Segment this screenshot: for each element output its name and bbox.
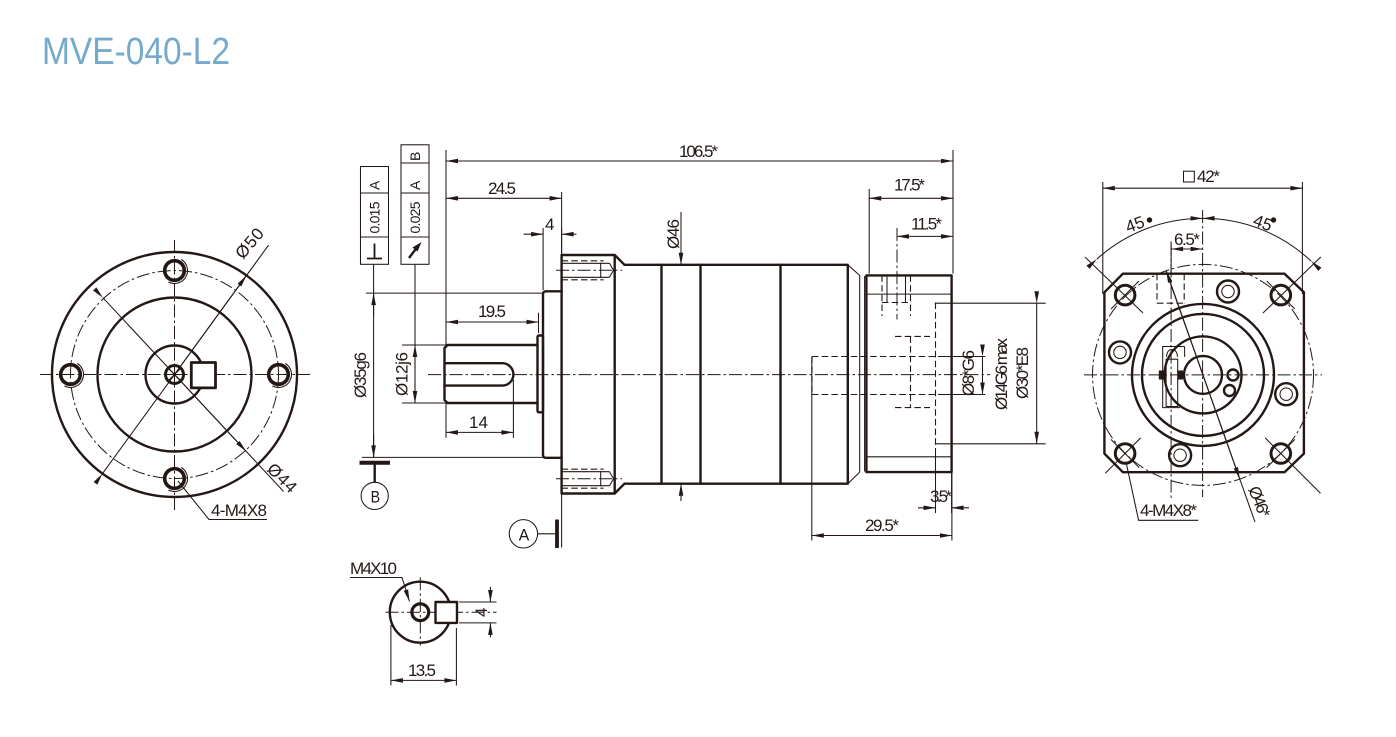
shaft outline	[445, 345, 538, 403]
dimension 3.5	[918, 448, 969, 513]
shaft step washer	[538, 336, 544, 413]
svg-text:A: A	[519, 525, 530, 544]
keyway slot	[445, 363, 514, 385]
svg-text:MVE-040-L2: MVE-040-L2	[42, 31, 230, 73]
inner face circle	[98, 298, 252, 452]
dimension 29.5	[812, 357, 952, 541]
svg-text:Ø12j6: Ø12j6	[393, 352, 412, 396]
center hole	[412, 604, 429, 621]
dimension D46 leader	[1166, 271, 1274, 522]
svg-text:13.5: 13.5	[408, 661, 436, 680]
dimension 13.5	[391, 625, 457, 686]
svg-text:B: B	[407, 152, 423, 161]
datum A flag	[509, 494, 561, 549]
square flange outline	[1104, 274, 1304, 473]
centerline horizontal	[40, 374, 310, 376]
front flange tapped hole top	[556, 261, 622, 280]
svg-text:4-M4X8*: 4-M4X8*	[1140, 501, 1197, 520]
svg-text:A: A	[407, 180, 423, 190]
plain hole bottom	[1169, 444, 1191, 466]
big circle 3	[1165, 336, 1242, 413]
svg-text:Ø46*: Ø46*	[1244, 483, 1274, 520]
outer flange circle	[52, 252, 297, 497]
plain hole right	[1275, 383, 1297, 405]
neck chamfer	[848, 265, 865, 484]
outer circle	[390, 582, 451, 643]
bolt hole right	[269, 364, 292, 388]
hidden bore lines	[812, 357, 938, 395]
dimension square 42	[1103, 167, 1303, 294]
label 4-M4X8 leader	[178, 481, 267, 520]
dimension D8*G6	[982, 357, 984, 395]
dimension D12j6	[393, 264, 447, 403]
svg-text:4: 4	[472, 608, 491, 617]
bolt hole bottom	[165, 468, 188, 492]
bolt hole left	[61, 364, 84, 388]
rear block	[866, 275, 951, 472]
svg-text:29.5*: 29.5*	[865, 516, 899, 535]
svg-text:42*: 42*	[1197, 167, 1220, 186]
dimension D30*E8	[1036, 303, 1038, 444]
dimension 24.5	[446, 179, 562, 255]
svg-text:45: 45	[1123, 212, 1147, 236]
front flange tapped hole bottom	[556, 469, 622, 488]
FCF frame 2 runout	[401, 145, 429, 264]
hidden recess D30	[935, 303, 937, 445]
hub circle	[146, 346, 204, 404]
corner hole TR	[1263, 257, 1321, 313]
centerline vertical	[1202, 210, 1204, 497]
svg-text:Ø30*E8: Ø30*E8	[1013, 347, 1032, 399]
svg-text:0.025: 0.025	[407, 201, 423, 233]
dimension D46	[664, 212, 683, 501]
dimension line D44	[103, 298, 284, 492]
svg-text:Ø14G6 max: Ø14G6 max	[992, 338, 1011, 411]
tab square	[436, 602, 458, 623]
centerlines	[386, 577, 497, 645]
clamp feature	[1159, 347, 1185, 408]
45 degree arc	[1097, 211, 1311, 261]
center rosette	[166, 366, 184, 384]
svg-text:0.015: 0.015	[367, 201, 383, 233]
svg-text:Ø44: Ø44	[263, 459, 300, 496]
FCF frame 1 perpendicularity	[361, 167, 389, 265]
dimension 14	[446, 380, 513, 438]
body ring line 3	[779, 265, 781, 484]
svg-text:Ø35g6: Ø35g6	[351, 352, 370, 398]
svg-text:3.5*: 3.5*	[930, 487, 952, 506]
svg-text:4: 4	[545, 215, 554, 234]
svg-text:B: B	[371, 487, 381, 506]
dimension 106.5	[446, 142, 953, 346]
hidden slot top	[1157, 274, 1184, 304]
plain hole top	[1217, 281, 1239, 303]
dimension 4 boss	[524, 215, 577, 290]
corner hole TL	[1085, 257, 1143, 313]
dimension 6.5	[1171, 230, 1203, 273]
big circle 2	[1142, 314, 1264, 436]
dimension 11.5	[897, 215, 953, 237]
centerline	[428, 374, 990, 376]
center bore	[1184, 356, 1222, 394]
svg-text:M4X10: M4X10	[350, 559, 397, 578]
svg-text:19.5: 19.5	[478, 302, 506, 321]
pilot boss D35	[543, 291, 562, 458]
key square	[191, 363, 215, 388]
dimension 4 tab	[459, 587, 497, 638]
keyway centerline	[1170, 243, 1172, 500]
svg-text:11.5*: 11.5*	[911, 215, 942, 234]
body ring line 2	[699, 265, 701, 484]
rear tapped hole hidden	[882, 228, 911, 320]
extension lines D30	[935, 303, 1046, 444]
svg-text:17.5*: 17.5*	[894, 176, 925, 195]
dimension D35g6	[351, 264, 543, 457]
svg-text:Ø50: Ø50	[232, 224, 268, 262]
bolt hole top	[165, 260, 188, 284]
centerline vertical	[174, 240, 176, 510]
big circle 1	[1132, 304, 1274, 446]
centerline horizontal	[1084, 374, 1322, 376]
front flange	[562, 255, 625, 494]
svg-text:A: A	[367, 180, 383, 190]
dimension 19.5	[446, 302, 539, 333]
rear block inner ring lines	[866, 294, 951, 457]
datum B flag	[360, 463, 391, 510]
svg-text:14: 14	[469, 413, 488, 432]
svg-text:4-M4X8: 4-M4X8	[211, 501, 267, 520]
bolt circle dash-dot	[71, 271, 279, 479]
svg-text:24.5: 24.5	[488, 179, 516, 198]
small hole 2	[1224, 385, 1235, 396]
extension lines D8	[938, 357, 985, 395]
hidden bore D14	[895, 336, 930, 407]
label 4-M4X8 rear	[1126, 462, 1198, 520]
svg-text:6.5*: 6.5*	[1174, 230, 1200, 249]
plain hole left	[1109, 341, 1131, 363]
svg-text:106.5*: 106.5*	[679, 142, 718, 161]
gear body	[625, 265, 848, 484]
dimension line D50	[103, 245, 269, 474]
corner hole BR	[1265, 438, 1320, 493]
svg-text:Ø8*G6: Ø8*G6	[959, 350, 978, 396]
bolt circle dash-dot	[1093, 264, 1314, 485]
svg-text:45: 45	[1251, 211, 1275, 235]
svg-text:Ø46: Ø46	[664, 219, 683, 249]
small hole 1	[1228, 370, 1239, 381]
dimension 17.5	[869, 176, 953, 274]
corner hole BL	[1105, 438, 1140, 473]
body ring line 1	[660, 265, 662, 484]
